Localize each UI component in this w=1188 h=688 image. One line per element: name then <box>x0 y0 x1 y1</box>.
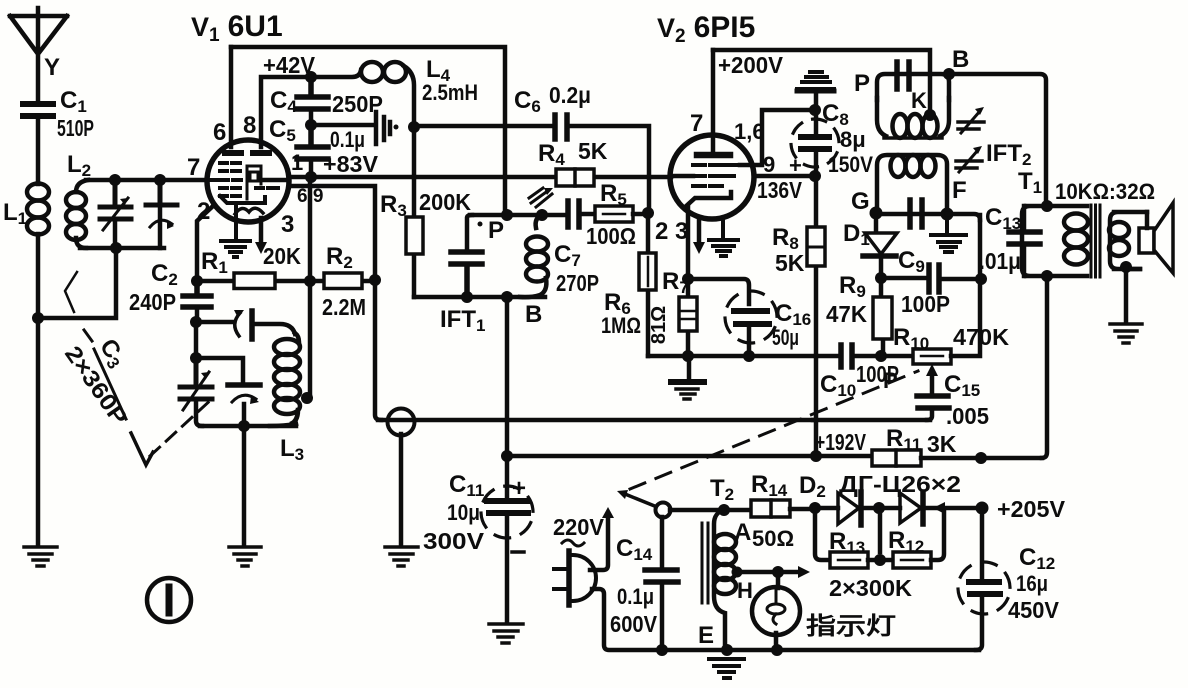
wire osc mid <box>196 322 243 381</box>
node C2 bottom <box>190 316 202 328</box>
wire L3 tank ground <box>242 426 247 546</box>
T2 heater tap <box>736 570 800 575</box>
wire tank to antenna node <box>38 248 116 318</box>
ground (oscillator tank) <box>229 547 261 566</box>
slug arrow 2 <box>956 146 982 172</box>
node C9 right <box>975 273 987 285</box>
V2 cathode lead down <box>686 207 691 279</box>
IFT1 capacitor <box>451 215 482 297</box>
svg-text:D1: D1 <box>843 220 870 249</box>
node P <box>501 209 513 221</box>
svg-text:50Ω: 50Ω <box>752 526 794 551</box>
svg-text:P: P <box>854 70 870 97</box>
transformer T2 core <box>702 523 708 603</box>
wire R3 bottom to IFT1 <box>414 295 545 300</box>
capacitor C10 <box>820 345 912 400</box>
inductor L1 <box>3 184 49 235</box>
V1 cathode bar <box>220 196 265 203</box>
svg-text:T2: T2 <box>710 475 734 504</box>
node R5 right <box>642 207 654 219</box>
svg-text:C4: C4 <box>270 87 297 116</box>
V2 pin arrow <box>697 221 702 244</box>
svg-text:2: 2 <box>197 198 210 225</box>
svg-text:R11: R11 <box>886 425 921 454</box>
wire mains bottom <box>592 589 979 650</box>
node lamp bottom <box>771 644 783 656</box>
node R1 left <box>191 275 203 287</box>
svg-text:R5: R5 <box>600 180 627 209</box>
svg-text:8μ: 8μ <box>840 127 866 152</box>
capacitor C1 <box>23 87 94 141</box>
node R8 bottom <box>810 450 822 462</box>
V1 heater wave <box>235 208 263 214</box>
svg-text:150V: 150V <box>828 152 873 177</box>
capacitor C16 <box>688 279 811 356</box>
switch lever <box>625 494 657 507</box>
svg-text:.01μ: .01μ <box>979 248 1021 274</box>
variable capacitor C3b <box>180 358 212 426</box>
node C8 bottom <box>809 170 821 182</box>
node cathode R7 <box>682 273 694 285</box>
svg-text:F: F <box>952 177 967 204</box>
variable capacitor C3a <box>100 180 131 248</box>
wire L4 node down to rail <box>412 127 417 177</box>
ground (speaker) <box>1110 324 1142 343</box>
svg-text:R14: R14 <box>751 471 788 500</box>
svg-text:V26PI5: V26PI5 <box>657 11 755 47</box>
wire F to C9 line <box>947 214 980 220</box>
V2 g2 lead <box>740 110 813 165</box>
svg-text:+192V: +192V <box>815 429 866 455</box>
node B <box>943 68 955 80</box>
svg-text:C10: C10 <box>820 371 856 400</box>
svg-text:2×300K: 2×300K <box>829 575 912 601</box>
capacitor C2 <box>129 260 211 322</box>
top rail V2 <box>713 50 930 113</box>
wire grid rail V1 pin7 <box>86 178 207 183</box>
node T2 bottom <box>721 644 733 656</box>
speaker <box>1128 203 1173 273</box>
diode D1 <box>843 213 897 278</box>
wire speaker ground <box>1124 267 1129 322</box>
node IFT1 B <box>501 291 513 303</box>
svg-text:+83V: +83V <box>323 151 379 177</box>
volume control terminal <box>388 409 415 436</box>
node tank bottom <box>110 242 122 254</box>
node +205V <box>976 502 989 515</box>
oscillator padder cap <box>228 385 260 426</box>
resistor R4 <box>538 138 608 186</box>
svg-text:220V: 220V <box>553 514 605 540</box>
svg-text:P: P <box>883 368 898 393</box>
resistor R13 <box>815 508 893 568</box>
capacitor C6 <box>414 82 649 211</box>
capacitor C9 <box>881 247 981 317</box>
IFT1 coil C7 <box>520 215 599 297</box>
dashed pointer lower V <box>131 433 153 465</box>
pin 8 lead <box>261 77 311 147</box>
capacitor C4 <box>270 77 383 124</box>
svg-text:6: 6 <box>213 119 226 146</box>
svg-text:50μ: 50μ <box>772 325 799 350</box>
capacitor C12 <box>950 508 1060 650</box>
svg-text:C9: C9 <box>898 247 925 276</box>
node D2 mid <box>873 502 885 514</box>
wire terminal to ground <box>399 434 404 546</box>
svg-text:5K: 5K <box>775 250 805 276</box>
R4 adjust marks <box>529 188 552 207</box>
svg-text:C15: C15 <box>944 371 980 400</box>
svg-text:R3: R3 <box>380 191 407 220</box>
svg-text:IFT2: IFT2 <box>986 140 1031 169</box>
capacitor C15 <box>917 371 989 429</box>
resistor R5 <box>586 180 647 249</box>
IFT2 primary capacitor <box>897 62 909 89</box>
svg-text:C11: C11 <box>449 471 484 500</box>
svg-text:C14: C14 <box>616 535 653 564</box>
svg-text:C2: C2 <box>151 260 178 289</box>
tube V1 envelope <box>207 140 289 222</box>
svg-text:P: P <box>488 217 504 244</box>
pin 3 arrow <box>259 218 264 244</box>
screen bus wire <box>648 354 838 359</box>
node L4 bottom <box>408 121 420 133</box>
svg-text:9: 9 <box>763 152 775 177</box>
svg-text:1: 1 <box>291 150 303 175</box>
svg-text:A: A <box>734 519 751 546</box>
core adjust symbol <box>376 112 390 144</box>
wire antenna to L1 <box>36 116 41 184</box>
node R7 bottom <box>682 350 694 362</box>
V1 cathode ground <box>221 204 250 257</box>
svg-text:10μ: 10μ <box>447 500 480 525</box>
ground (F) <box>931 214 966 252</box>
wire volume line <box>378 418 813 423</box>
svg-text:0.2μ: 0.2μ <box>549 82 591 108</box>
V1 internal grids <box>210 163 278 196</box>
wire +42V node to L4 <box>311 70 361 77</box>
capacitor C11 <box>423 456 541 622</box>
figure number 1 <box>147 578 191 622</box>
V2 plate lead <box>711 50 716 153</box>
pilot lamp <box>752 572 800 650</box>
wire +192V line <box>507 454 872 459</box>
resistor R7 <box>648 268 697 356</box>
dashed pointer upper <box>65 272 77 312</box>
svg-text:L1: L1 <box>3 199 27 228</box>
wire T1 bottom feed <box>1042 276 1047 458</box>
capacitor C8 <box>783 100 873 178</box>
node R9 bottom <box>875 350 887 362</box>
wire tank bottom osc <box>200 424 296 429</box>
svg-text:2.2M: 2.2M <box>322 294 366 320</box>
svg-text:8: 8 <box>243 112 256 139</box>
pin 6,9 wire <box>289 186 375 280</box>
svg-text:450V: 450V <box>1008 597 1060 623</box>
node K tap <box>924 109 936 121</box>
node R13/R12 <box>874 554 886 566</box>
resistor R11 <box>872 425 1042 466</box>
svg-text:20K: 20K <box>263 243 301 269</box>
svg-text:1MΩ: 1MΩ <box>601 313 641 338</box>
node C4/C5 <box>305 119 317 131</box>
node speaker bottom <box>1120 261 1132 273</box>
tap arrow <box>933 502 945 514</box>
svg-text:100P: 100P <box>901 291 950 317</box>
svg-text:R2: R2 <box>326 243 353 272</box>
wire switch to T2 <box>670 508 751 513</box>
wire R2 right down to volume line <box>375 280 381 420</box>
node C4 top <box>305 71 317 83</box>
svg-text:T1: T1 <box>1018 168 1042 197</box>
svg-text:D2: D2 <box>799 472 826 501</box>
resistor R3 <box>380 177 471 297</box>
node osc mid <box>190 352 202 364</box>
node C11 top <box>501 450 513 462</box>
IFT2 primary box <box>877 74 949 138</box>
resistor R9 <box>826 272 892 356</box>
svg-text:5K: 5K <box>578 138 608 164</box>
node antenna/ground junction <box>32 312 44 324</box>
ground (screen bus) <box>687 356 692 378</box>
transformer T2 winding <box>698 510 794 650</box>
node C14 bottom <box>656 644 668 656</box>
transformer T1 secondary <box>1109 212 1147 269</box>
svg-text:C1: C1 <box>60 87 87 116</box>
IFT1 top wire <box>470 213 540 218</box>
ground (antenna) <box>24 547 57 566</box>
svg-text:G: G <box>851 188 870 215</box>
svg-text:IFT1: IFT1 <box>440 306 485 335</box>
svg-text:0.1μ: 0.1μ <box>617 584 654 609</box>
svg-text:R9: R9 <box>839 272 866 301</box>
svg-text:H: H <box>737 578 753 603</box>
resistor R6 <box>601 213 656 356</box>
svg-text:240P: 240P <box>129 289 176 315</box>
svg-text:.005: .005 <box>946 403 989 429</box>
node L2/C3a <box>109 174 121 186</box>
resistor R2 <box>310 243 375 320</box>
svg-text:E: E <box>698 622 714 649</box>
svg-text:L3: L3 <box>280 435 304 464</box>
node D2 left <box>809 502 821 514</box>
node pin1 rail <box>305 171 317 183</box>
node tank bottom osc <box>238 420 250 432</box>
svg-text:3K: 3K <box>927 431 957 457</box>
svg-text:V16U1: V16U1 <box>191 10 283 46</box>
wire pin1 node down <box>308 177 313 398</box>
capacitor C14 <box>610 517 678 650</box>
resistor R1 <box>197 243 310 289</box>
top rail V1 <box>231 47 505 215</box>
R10 wiper arrow <box>930 372 935 392</box>
svg-text:C13: C13 <box>985 204 1021 233</box>
pin 6 lead <box>229 47 234 147</box>
svg-text:510P: 510P <box>57 115 94 141</box>
resistor R8 <box>772 176 825 356</box>
svg-text:Y: Y <box>44 54 60 81</box>
svg-text:R8: R8 <box>772 224 799 253</box>
svg-text:100Ω: 100Ω <box>586 223 636 249</box>
potentiometer R10 <box>893 215 1009 364</box>
V2 internal plate <box>697 152 730 159</box>
svg-text:+200V: +200V <box>718 52 784 78</box>
svg-text:600V: 600V <box>610 611 658 637</box>
V2 internal grids <box>693 165 740 186</box>
svg-text:10KΩ:32Ω: 10KΩ:32Ω <box>1055 179 1155 204</box>
V2 grid rail entry <box>671 174 693 179</box>
node R11 right <box>975 452 987 464</box>
svg-text:R4: R4 <box>538 140 565 169</box>
inductor L3 <box>270 333 304 464</box>
coupling capacitor to R5 <box>542 201 595 227</box>
IFT2 secondary capacitor <box>877 200 947 227</box>
ground (C11) <box>489 624 523 643</box>
chassis symbol top <box>797 72 834 89</box>
wire C5 node to core symbol <box>311 123 372 128</box>
svg-text:R1: R1 <box>201 248 228 277</box>
tube V2 envelope <box>670 135 754 219</box>
node L3 tap <box>301 392 313 404</box>
V1 internal screen box <box>247 166 261 199</box>
node IFT1 cap bottom <box>461 291 473 303</box>
diode D2a <box>815 492 878 525</box>
T1 core <box>1091 205 1100 277</box>
node IFT1 coil top <box>536 209 548 221</box>
node R2 right <box>369 274 381 286</box>
svg-text:C5: C5 <box>269 116 296 145</box>
node R1/R2 junction <box>304 275 316 287</box>
svg-text:16μ: 16μ <box>1016 571 1048 596</box>
svg-text:C7: C7 <box>554 241 581 270</box>
svg-text:B: B <box>952 46 969 73</box>
svg-text:+: + <box>789 153 802 178</box>
resistor R14 <box>751 471 814 517</box>
slug arrow 1 <box>958 107 984 133</box>
V2 main rail to C8 <box>754 174 815 179</box>
node C16 bottom <box>743 350 755 362</box>
svg-text:2.5mH: 2.5mH <box>422 80 478 105</box>
antenna Y <box>10 8 67 103</box>
svg-text:R13: R13 <box>829 528 865 557</box>
node lamp top <box>772 566 784 578</box>
trimmer capacitor antenna <box>146 180 177 248</box>
svg-text:R12: R12 <box>888 527 924 556</box>
svg-text:0.1μ: 0.1μ <box>330 127 365 152</box>
node T1 top <box>1041 200 1053 212</box>
switch terminal <box>656 503 671 518</box>
svg-text:470K: 470K <box>953 324 1009 350</box>
svg-text:2 3: 2 3 <box>655 218 688 245</box>
IFT2 secondary box <box>877 155 947 213</box>
svg-text:7: 7 <box>187 154 200 181</box>
capacitor C13 <box>979 204 1040 276</box>
node C8 top <box>809 104 821 116</box>
ground (volume terminal) <box>385 547 418 566</box>
svg-text:C6: C6 <box>514 87 541 116</box>
wire B to T1 <box>949 74 1046 205</box>
svg-text:81Ω: 81Ω <box>648 306 670 344</box>
wire chassis to C8 <box>814 93 819 132</box>
svg-text:R10: R10 <box>893 324 929 353</box>
wire C15 to volume line <box>813 418 930 423</box>
power plug <box>553 514 605 605</box>
svg-text:+205V: +205V <box>997 496 1066 522</box>
svg-text:L2: L2 <box>67 151 91 180</box>
wire tank bottom <box>80 246 164 251</box>
node trimmer <box>154 174 166 186</box>
wire node to ground <box>36 318 41 546</box>
ground (power) <box>709 659 744 678</box>
inductor L4 <box>361 56 478 127</box>
V2 cathode ground <box>709 219 738 256</box>
wire plug top to switch contact <box>590 516 608 570</box>
svg-text:3: 3 <box>281 211 294 238</box>
svg-text:136V: 136V <box>757 177 803 203</box>
svg-text:K: K <box>911 88 927 113</box>
wire R8 to +192V node <box>814 356 819 456</box>
svg-text:7: 7 <box>690 110 703 137</box>
svg-text:指示灯: 指示灯 <box>806 613 896 640</box>
svg-text:47K: 47K <box>826 301 867 327</box>
node T2 top <box>718 504 730 516</box>
svg-text:+: + <box>512 475 526 502</box>
svg-text:C12: C12 <box>1019 544 1055 573</box>
inductor L2 <box>66 151 91 248</box>
svg-text:300V: 300V <box>423 528 485 554</box>
svg-text:C8: C8 <box>822 100 849 129</box>
ganged switch dashed link <box>630 371 918 489</box>
V1 internal plates <box>225 150 269 156</box>
node D1 bottom <box>875 272 887 284</box>
diode D2b <box>879 492 982 524</box>
node G <box>870 207 883 220</box>
svg-text:200K: 200K <box>419 189 471 215</box>
pin 2 lead <box>197 206 213 281</box>
svg-text:270P: 270P <box>556 270 599 296</box>
main grid rail V2 <box>289 175 671 180</box>
transformer T1 primary <box>1022 206 1088 276</box>
wire B node down <box>505 297 510 456</box>
svg-text:B: B <box>525 301 542 328</box>
V1 pin1 wire inside <box>262 178 289 183</box>
svg-text:R7: R7 <box>662 268 689 297</box>
node T1 bottom <box>1041 270 1053 282</box>
capacitor C5 <box>269 116 379 177</box>
resistor R12 <box>888 512 944 568</box>
node F <box>941 208 954 221</box>
oscillator trimmer top <box>196 310 295 339</box>
wire L1 down to node <box>36 234 41 318</box>
V2 cathode <box>684 192 731 208</box>
